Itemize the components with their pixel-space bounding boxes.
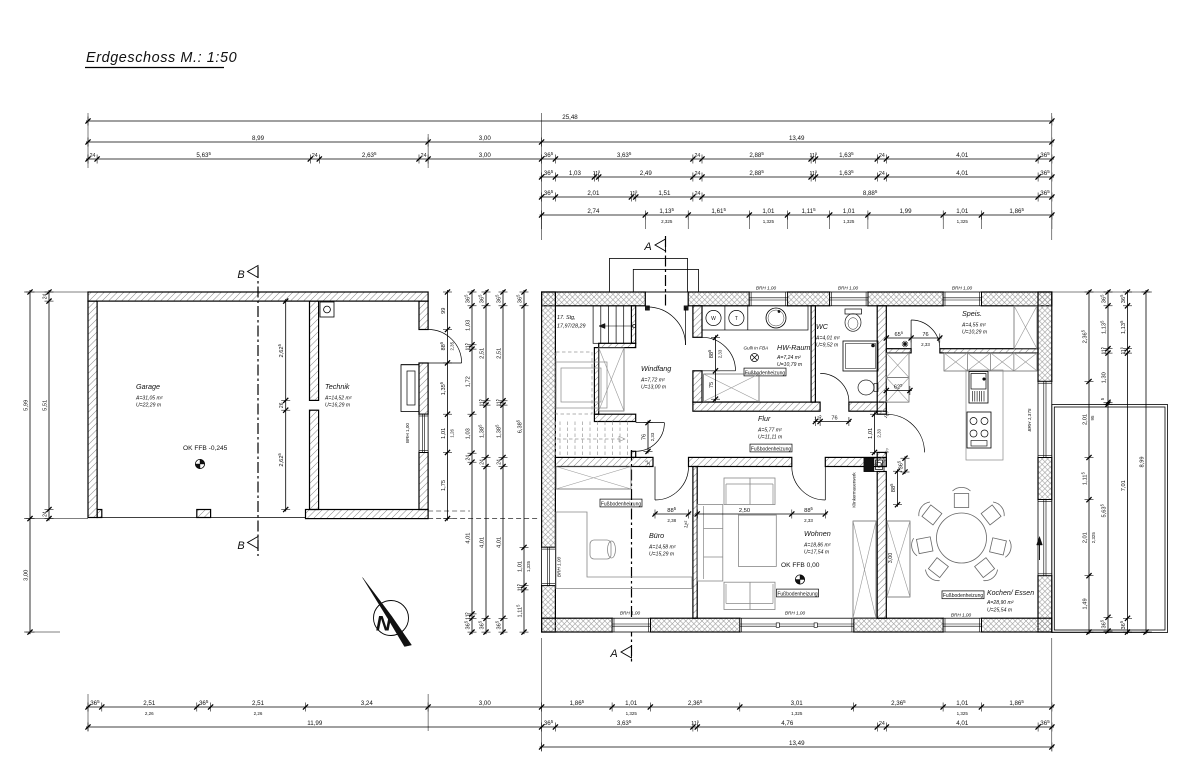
svg-text:A=28,90 m²: A=28,90 m² — [986, 600, 1014, 606]
svg-text:B: B — [237, 269, 244, 281]
svg-text:24: 24 — [496, 459, 502, 465]
svg-text:1,75: 1,75 — [441, 480, 447, 491]
svg-text:U=9,52 m: U=9,52 m — [816, 343, 838, 349]
svg-text:A=7,24 m²: A=7,24 m² — [776, 355, 801, 361]
svg-text:1,325: 1,325 — [526, 560, 531, 572]
svg-text:13,49: 13,49 — [789, 740, 805, 747]
svg-text:3,00: 3,00 — [479, 135, 492, 142]
svg-text:76: 76 — [641, 434, 647, 440]
svg-text:17. Stg,: 17. Stg, — [557, 315, 576, 321]
svg-text:T: T — [735, 316, 738, 322]
svg-text:A=5,77 m²: A=5,77 m² — [757, 428, 782, 434]
svg-text:U=16,29 m: U=16,29 m — [325, 403, 350, 409]
svg-text:3,00: 3,00 — [479, 700, 492, 707]
svg-text:Fußbodenheizung: Fußbodenheizung — [745, 370, 786, 376]
svg-text:2,26: 2,26 — [145, 711, 154, 716]
svg-text:2,51: 2,51 — [496, 348, 502, 359]
svg-text:2,38: 2,38 — [667, 518, 676, 523]
svg-text:2,01: 2,01 — [1082, 532, 1088, 543]
svg-text:76: 76 — [922, 332, 928, 338]
svg-text:1,325: 1,325 — [957, 711, 969, 716]
svg-text:BRH 1,00: BRH 1,00 — [620, 611, 641, 616]
svg-text:BRH 1,00: BRH 1,00 — [557, 556, 562, 577]
svg-text:2,51: 2,51 — [479, 348, 485, 359]
svg-text:A: A — [609, 648, 617, 660]
svg-text:2,325: 2,325 — [1091, 532, 1096, 544]
svg-text:25,48: 25,48 — [562, 114, 578, 121]
svg-text:2,50: 2,50 — [739, 508, 750, 514]
svg-text:1,01: 1,01 — [517, 561, 523, 572]
svg-text:1,51: 1,51 — [658, 190, 671, 197]
svg-text:2,33: 2,33 — [650, 432, 655, 441]
svg-text:OK FFB 0,00: OK FFB 0,00 — [781, 562, 820, 569]
svg-text:2,49: 2,49 — [640, 170, 653, 177]
svg-text:1,30: 1,30 — [1101, 372, 1107, 383]
svg-text:WC: WC — [816, 322, 829, 331]
svg-text:2,01: 2,01 — [1082, 414, 1088, 425]
svg-text:1,01: 1,01 — [843, 208, 856, 215]
svg-text:1,72: 1,72 — [465, 376, 471, 387]
svg-text:24: 24 — [879, 153, 885, 159]
svg-text:U=25,54 m: U=25,54 m — [987, 608, 1012, 614]
svg-text:5,99: 5,99 — [23, 400, 29, 411]
svg-text:24: 24 — [694, 153, 700, 159]
svg-text:U=10,29 m: U=10,29 m — [962, 330, 987, 336]
svg-text:A: A — [643, 241, 651, 253]
svg-text:Wohnen: Wohnen — [804, 529, 831, 538]
svg-text:4,76: 4,76 — [781, 720, 794, 727]
svg-text:2,51: 2,51 — [252, 700, 265, 707]
svg-text:4,01: 4,01 — [956, 720, 969, 727]
svg-text:Fußbodenheizung: Fußbodenheizung — [777, 591, 818, 597]
svg-text:BRH 1,00: BRH 1,00 — [952, 286, 973, 291]
svg-text:1,03: 1,03 — [465, 428, 471, 439]
svg-text:B: B — [237, 540, 244, 552]
svg-text:24: 24 — [421, 153, 427, 159]
svg-text:A=14,58 m²: A=14,58 m² — [648, 545, 676, 551]
svg-text:BRH 1,375: BRH 1,375 — [1027, 408, 1032, 431]
svg-text:3,00: 3,00 — [479, 152, 492, 159]
svg-text:Erdgeschoss M.: 1:50: Erdgeschoss M.: 1:50 — [86, 50, 237, 66]
svg-text:U=11,11 m: U=11,11 m — [758, 435, 782, 441]
svg-text:U=15,29 m: U=15,29 m — [649, 552, 674, 558]
svg-text:Garage: Garage — [136, 382, 160, 391]
svg-text:5,51: 5,51 — [42, 400, 48, 411]
svg-text:1,03: 1,03 — [569, 170, 582, 177]
svg-text:1,01: 1,01 — [625, 700, 638, 707]
svg-text:1,03: 1,03 — [465, 320, 471, 331]
svg-text:1,325: 1,325 — [957, 219, 969, 224]
svg-text:BRH 1,00: BRH 1,00 — [838, 286, 859, 291]
svg-text:Fußbodenheizung: Fußbodenheizung — [751, 446, 792, 452]
svg-text:2,33: 2,33 — [804, 518, 813, 523]
svg-text:A=14,52 m²: A=14,52 m² — [324, 396, 352, 402]
svg-text:A=18,86 m²: A=18,86 m² — [803, 543, 831, 549]
svg-text:Technik: Technik — [325, 382, 350, 391]
svg-text:Kochen/ Essen: Kochen/ Essen — [987, 590, 1034, 597]
svg-text:U=13,00 m: U=13,00 m — [641, 385, 666, 391]
svg-text:3,24: 3,24 — [361, 700, 374, 707]
svg-text:OK FFB -0,245: OK FFB -0,245 — [183, 445, 228, 452]
svg-text:Flur: Flur — [758, 414, 771, 423]
svg-text:Windfang: Windfang — [641, 364, 671, 373]
svg-text:7,01: 7,01 — [1121, 480, 1127, 491]
svg-text:1,01: 1,01 — [762, 208, 775, 215]
svg-text:HW-Raum: HW-Raum — [777, 343, 810, 352]
svg-text:4,01: 4,01 — [496, 537, 502, 548]
svg-text:2,33: 2,33 — [876, 428, 881, 437]
svg-text:2,33: 2,33 — [717, 349, 722, 358]
svg-text:11,99: 11,99 — [307, 720, 323, 727]
svg-text:26: 26 — [279, 402, 285, 408]
svg-text:3,00: 3,00 — [888, 553, 894, 564]
svg-text:Klinkermauerwerk: Klinkermauerwerk — [852, 472, 857, 508]
svg-text:1,99: 1,99 — [899, 208, 912, 215]
svg-text:24: 24 — [695, 191, 701, 197]
svg-text:13,49: 13,49 — [789, 135, 805, 142]
svg-text:1,01: 1,01 — [956, 208, 969, 215]
svg-text:Fußbodenheizung: Fußbodenheizung — [943, 593, 984, 599]
svg-text:1,49: 1,49 — [1082, 598, 1088, 609]
svg-text:1,325: 1,325 — [763, 219, 775, 224]
svg-text:Gulli in FBA: Gulli in FBA — [744, 346, 769, 351]
svg-text:8,99: 8,99 — [1139, 456, 1145, 467]
svg-text:76: 76 — [831, 415, 837, 421]
svg-text:24: 24 — [312, 153, 318, 159]
svg-text:95: 95 — [1090, 415, 1095, 421]
svg-text:Büro: Büro — [649, 531, 664, 540]
svg-text:24: 24 — [465, 455, 471, 461]
svg-text:24: 24 — [879, 171, 885, 177]
svg-text:4,01: 4,01 — [956, 170, 969, 177]
svg-text:1,01: 1,01 — [956, 700, 969, 707]
svg-text:2,33: 2,33 — [921, 342, 930, 347]
svg-text:1,26: 1,26 — [449, 428, 454, 437]
svg-text:W: W — [711, 316, 716, 322]
svg-text:BRH 1,00: BRH 1,00 — [756, 286, 777, 291]
svg-text:U=17,54 m: U=17,54 m — [804, 550, 829, 556]
svg-text:3,01: 3,01 — [791, 700, 804, 707]
svg-text:4,01: 4,01 — [479, 537, 485, 548]
svg-text:24: 24 — [695, 171, 701, 177]
svg-text:4,01: 4,01 — [956, 152, 969, 159]
svg-text:75: 75 — [709, 382, 715, 388]
svg-text:A=7,72 m²: A=7,72 m² — [640, 378, 665, 384]
svg-text:2,74: 2,74 — [587, 208, 600, 215]
svg-text:A=31,05 m²: A=31,05 m² — [135, 396, 163, 402]
svg-text:BRH 1,00: BRH 1,00 — [785, 611, 806, 616]
svg-text:24: 24 — [479, 459, 485, 465]
svg-text:1,01: 1,01 — [441, 428, 447, 439]
svg-text:17,97/28,29: 17,97/28,29 — [557, 324, 585, 330]
svg-text:2,51: 2,51 — [143, 700, 156, 707]
svg-text:24: 24 — [42, 294, 48, 300]
svg-text:1,325: 1,325 — [843, 219, 855, 224]
svg-text:24: 24 — [879, 721, 885, 727]
svg-text:BRH 1,00: BRH 1,00 — [405, 423, 410, 443]
svg-text:2,35: 2,35 — [449, 341, 454, 350]
svg-text:1,325: 1,325 — [626, 711, 638, 716]
svg-text:24: 24 — [90, 153, 96, 159]
svg-text:U=22,29 m: U=22,29 m — [136, 403, 161, 409]
svg-text:Fußbodenheizung: Fußbodenheizung — [601, 501, 642, 507]
svg-text:24: 24 — [42, 511, 48, 517]
svg-text:4,01: 4,01 — [465, 533, 471, 544]
svg-text:1,01: 1,01 — [868, 428, 874, 439]
svg-text:3,00: 3,00 — [23, 570, 29, 581]
svg-text:2,26: 2,26 — [254, 711, 263, 716]
svg-text:99: 99 — [441, 308, 447, 314]
svg-text:Speis.: Speis. — [962, 309, 982, 318]
svg-text:U=10,79 m: U=10,79 m — [777, 362, 802, 368]
svg-text:8,99: 8,99 — [252, 135, 265, 142]
svg-text:A=4,55 m²: A=4,55 m² — [961, 323, 986, 329]
svg-text:2,325: 2,325 — [661, 219, 673, 224]
svg-text:A=4,01 m²: A=4,01 m² — [815, 336, 840, 342]
svg-text:N: N — [376, 613, 392, 636]
svg-text:2,01: 2,01 — [587, 190, 600, 197]
svg-text:BRH 1,00: BRH 1,00 — [951, 613, 972, 618]
svg-text:1,325: 1,325 — [791, 711, 803, 716]
